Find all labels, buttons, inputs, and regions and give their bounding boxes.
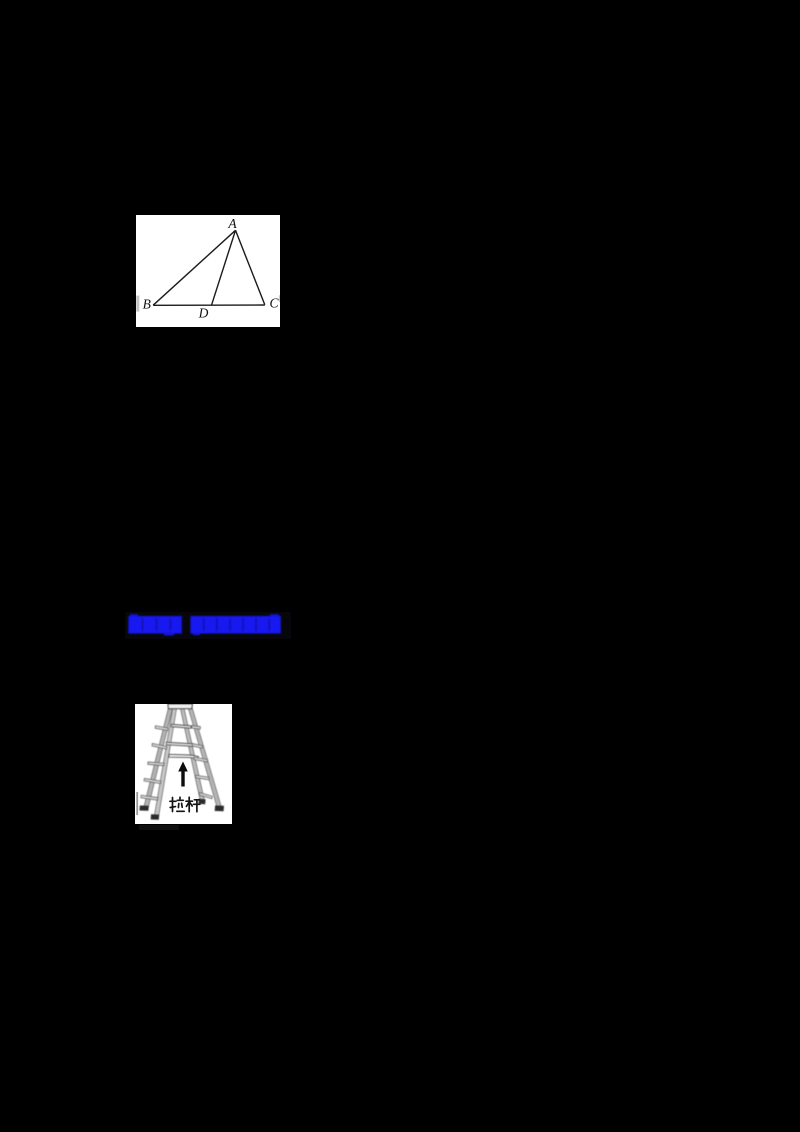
right face bar 2: [192, 743, 202, 748]
figure panel: step ladder photo: [135, 704, 232, 824]
tie rod (la gan): [169, 754, 199, 758]
foot rear-left: [140, 805, 149, 810]
left face bar 1: [155, 725, 168, 730]
ladder front-left rail: [155, 708, 177, 815]
figure panel: triangle ABC with cevian AD: [136, 215, 280, 327]
svg-text:D: D: [197, 306, 208, 321]
wire side AC: [235, 231, 264, 305]
ladder top cap: [168, 704, 193, 709]
left face bar 2: [152, 743, 167, 749]
right face bar 4: [196, 775, 210, 780]
arrow pointing at tie rod: [178, 761, 188, 771]
faint scan smudge below ladder panel: [139, 825, 179, 830]
svg-text:A: A: [227, 216, 237, 231]
scan artifact left edge: [136, 791, 138, 814]
right face bar 3: [194, 757, 208, 762]
scan artifact right edge: [279, 295, 280, 302]
svg-text:B: B: [142, 297, 150, 312]
blue heading band (blurred bold CJK heading): [120, 608, 295, 640]
ladder front-right rail: [188, 708, 221, 807]
left face bar 3: [148, 761, 164, 765]
label: la (pull) character: [170, 797, 184, 811]
wire side AB: [153, 231, 235, 306]
right face bar 1: [192, 725, 201, 729]
rung 1: [171, 724, 191, 728]
foot front-right: [215, 805, 224, 811]
ladder rear-left rail: [144, 708, 173, 807]
right face bar 5: [199, 792, 212, 798]
rung 2: [166, 742, 193, 746]
left face bar 4: [144, 778, 161, 783]
wire side BC: [153, 304, 265, 306]
label: gan (rod) character: [186, 797, 200, 812]
foot rear-right: [199, 798, 206, 803]
wire cevian AD: [211, 231, 235, 306]
scan artifact left edge: [136, 296, 139, 312]
svg-text:C: C: [269, 296, 279, 311]
left face bar 5: [141, 795, 158, 800]
foot front-left: [151, 814, 159, 819]
ladder rear-right rail: [180, 708, 204, 800]
